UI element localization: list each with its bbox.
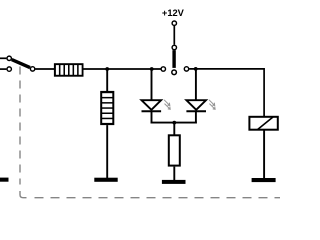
ground (below striped box) xyxy=(94,178,117,182)
wire (stub to switch contact 2) xyxy=(0,68,6,70)
switch S1 contact 1 xyxy=(7,56,11,60)
wire (right bus to relay corner) xyxy=(189,69,264,118)
LED D1 xyxy=(142,100,162,111)
switch S1 common terminal xyxy=(30,67,34,71)
LED D2 light arrows xyxy=(209,100,215,110)
enclosure dashed boundary (horizontal) xyxy=(35,197,283,199)
ground (clipped, left edge) xyxy=(0,178,9,182)
switch S2 lever (closed, vertical) xyxy=(172,50,175,68)
switch S2 lower terminal xyxy=(172,70,177,75)
junction (resistor branch) xyxy=(172,121,176,125)
svg-text:+12V: +12V xyxy=(162,8,185,18)
relay K1 coil xyxy=(249,117,277,130)
wire (resistor to ground) xyxy=(173,167,175,181)
node (bus break, right contact) xyxy=(184,67,188,71)
wire (LED1 anode) xyxy=(151,69,153,101)
junction (LED2 branch) xyxy=(194,67,198,71)
wire (LED2 cathode down) xyxy=(195,111,197,123)
resistor R2 xyxy=(169,135,180,165)
wire (relay to ground) xyxy=(263,130,265,179)
switch S2 upper terminal xyxy=(172,45,176,49)
node (bus break, left contact) xyxy=(161,67,165,71)
wire (+12V down) xyxy=(173,26,175,45)
wire (striped box to ground) xyxy=(106,125,108,178)
wire (fuse to LED1 junction) xyxy=(84,68,161,70)
LED D2 xyxy=(186,100,206,111)
fuse F1 (striped box, horizontal) xyxy=(54,63,84,76)
junction (vertical striped box branch) xyxy=(105,67,109,71)
junction (LED1 branch) xyxy=(150,67,154,71)
LED D1 light arrows xyxy=(164,100,170,110)
wire (cathode join) xyxy=(151,122,197,124)
wire (switch to fuse) xyxy=(35,68,54,70)
wire (junction to resistor) xyxy=(173,123,175,135)
switch S1 contact 2 xyxy=(7,67,11,71)
enclosure dashed boundary (corner) xyxy=(20,191,27,198)
resistor R1 (striped box, vertical) xyxy=(100,91,114,125)
ground (below resistor) xyxy=(162,180,186,184)
+12V terminal xyxy=(172,21,176,25)
wire (LED2 anode) xyxy=(195,69,197,101)
enclosure dashed boundary (vertical) xyxy=(19,67,21,185)
ground (below relay) xyxy=(252,178,276,182)
wire (LED1 cathode down) xyxy=(151,111,153,123)
switch S1 lever xyxy=(12,60,30,68)
wire (down to striped box) xyxy=(106,69,108,92)
wire (stub to switch contact 1) xyxy=(0,57,6,59)
